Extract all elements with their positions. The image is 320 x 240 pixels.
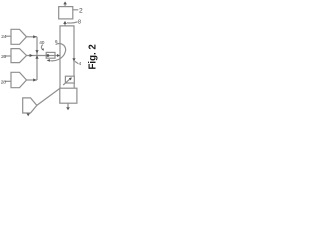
svg-text:26: 26 — [1, 54, 6, 60]
svg-text:8: 8 — [78, 20, 81, 26]
svg-text:4: 4 — [79, 61, 82, 66]
svg-text:Fig. 2: Fig. 2 — [87, 44, 98, 69]
svg-text:2: 2 — [79, 7, 83, 14]
svg-text:28: 28 — [1, 79, 6, 85]
svg-text:40: 40 — [39, 40, 44, 46]
svg-text:24: 24 — [1, 34, 6, 40]
svg-text:6: 6 — [55, 39, 58, 44]
